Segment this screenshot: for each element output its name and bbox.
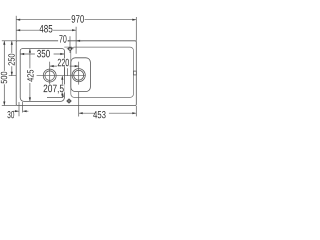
mask 250	[8, 53, 15, 66]
label 30	[7, 111, 14, 118]
label 70	[59, 35, 66, 43]
label 970	[72, 15, 84, 23]
extension line center x76.1	[75, 27, 77, 54]
right drain outer circle	[72, 69, 85, 82]
dim line 220	[50, 65, 79, 67]
dim line 500 vertical	[3, 41, 5, 106]
arrow 485 left	[16, 29, 20, 31]
overflow notch on right edge	[134, 71, 137, 75]
extension lines 30 dim	[19, 102, 23, 116]
outer sink rectangle	[16, 41, 136, 106]
dim line 970	[16, 19, 136, 21]
arrow 207,5 top	[61, 76, 63, 80]
dim line 350	[20, 53, 64, 55]
label 250	[8, 54, 14, 66]
arrow 453 left	[79, 112, 83, 114]
arrow 500 bottom	[3, 102, 5, 106]
arrow 500 top	[3, 41, 5, 45]
extension line 453 right x136.3	[135, 106, 137, 116]
dim line 30 tails	[13, 110, 28, 112]
arrow 350 right	[60, 53, 64, 55]
arrow 970 right	[132, 19, 136, 21]
mask 970	[71, 15, 85, 23]
main bowl bottom smile line	[47, 94, 64, 97]
tap hole bottom circle	[68, 100, 71, 103]
label 350	[37, 50, 50, 58]
dim line 485	[16, 29, 76, 31]
dim line 70 tails on top edge	[63, 40, 83, 42]
label 220	[58, 59, 69, 67]
arrow 220 left	[50, 65, 54, 67]
arrow 70 right (tip at 76.1)	[76, 40, 80, 42]
dim line 207,5 vertical	[61, 76, 63, 98]
recess top edge extension toward bowl	[64, 46, 72, 48]
arrow 425 top	[29, 49, 31, 53]
arrow 425 bottom	[29, 97, 31, 101]
label 453	[93, 111, 105, 118]
tap hole top circle	[69, 47, 72, 50]
label 500	[1, 72, 7, 84]
small bowl	[71, 58, 91, 92]
dim line 250 vertical	[11, 41, 13, 76]
extension line right x136.3 above sink	[135, 17, 137, 41]
dim line 425 vertical	[29, 49, 31, 102]
tick marks between drains	[65, 68, 68, 75]
label 425	[27, 70, 33, 82]
left drain outer circle	[43, 69, 56, 82]
mask 350	[35, 49, 54, 57]
arrow 485 right	[72, 29, 76, 31]
arrow 350 left	[20, 53, 24, 55]
label 207,5	[44, 85, 64, 94]
tap hole top cross horizontal	[67, 48, 74, 50]
drains horizontal centerline	[9, 75, 86, 77]
mask 30	[7, 112, 15, 120]
arrow 220 right	[75, 65, 79, 67]
mask 485	[39, 25, 53, 33]
arrow 970 left	[16, 19, 20, 21]
mask 70	[58, 35, 68, 43]
mask 425	[27, 68, 34, 83]
left drain vertical centerline	[49, 62, 51, 85]
arrow 453 right	[132, 112, 136, 114]
tap hole bottom cross	[66, 98, 71, 103]
mask 453	[95, 112, 109, 120]
mask 207,5	[43, 84, 65, 92]
label 485	[39, 25, 52, 33]
dim line 453	[79, 112, 137, 114]
right drain vertical centerline	[78, 62, 80, 85]
arrow 70 left (tip at 70)	[66, 40, 70, 42]
extension line left x16 above sink	[15, 16, 17, 41]
extension line top-left y40	[2, 40, 16, 42]
main bowl rim	[20, 49, 64, 102]
extension line tap centerline x70	[69, 36, 71, 53]
arrow 250 top	[11, 41, 13, 45]
left drain inner circle	[45, 71, 55, 81]
arrow 30 right (tip at 22.6)	[23, 110, 27, 112]
arrow 250 bottom	[11, 72, 13, 76]
arrow 207,5 bottom	[61, 94, 63, 98]
extension line 453 left x78.7	[78, 92, 80, 117]
mask 220	[57, 59, 70, 67]
mask 500	[0, 71, 7, 84]
arrow 30 left (tip at 19)	[15, 110, 19, 112]
recess / drainboard rounded rect	[71, 47, 134, 97]
extension line bottom-left y105.5	[2, 105, 16, 107]
right drain inner circle	[74, 70, 84, 80]
